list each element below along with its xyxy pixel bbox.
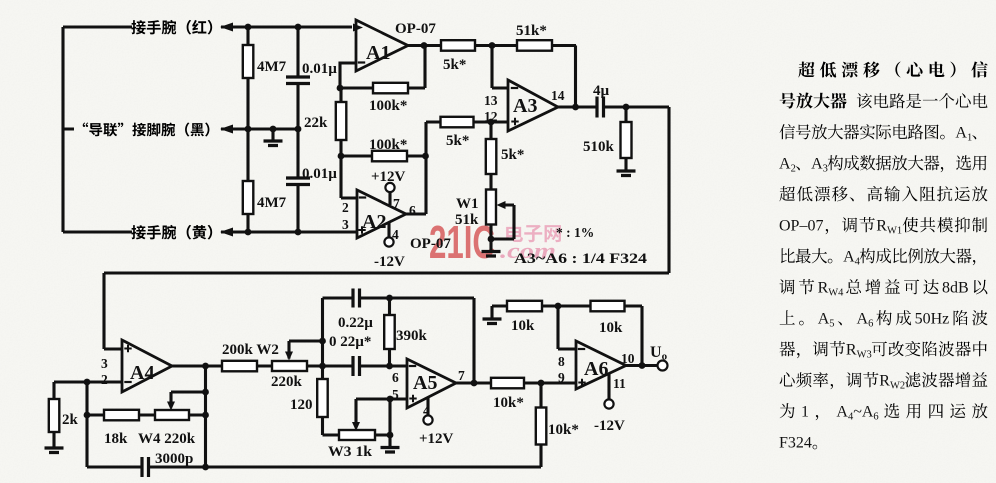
resistor 100k* R6 <box>369 137 407 161</box>
svg-text:7: 7 <box>458 368 465 383</box>
resistor 51k* R5 <box>516 23 552 51</box>
wire A5 output <box>456 381 576 384</box>
svg-text:22k: 22k <box>304 115 328 131</box>
svg-text:A3~A6 : 1/4 F324: A3~A6 : 1/4 F324 <box>514 251 648 267</box>
svg-text:4M7: 4M7 <box>257 195 287 211</box>
svg-text:3: 3 <box>101 356 108 371</box>
node notch junctions <box>386 295 393 370</box>
svg-text:2: 2 <box>101 372 108 387</box>
svg-text:A4: A4 <box>130 362 154 384</box>
label star-1pct note <box>556 225 594 240</box>
wire A6 output <box>626 364 658 367</box>
svg-text:W4 220k: W4 220k <box>138 431 196 447</box>
node A4 inv junctions <box>84 379 91 419</box>
capacitor 3000p <box>142 451 193 477</box>
svg-text:0.22µ: 0.22µ <box>338 315 373 331</box>
svg-text:2k: 2k <box>62 412 79 428</box>
ground A6 10k <box>483 306 508 324</box>
svg-text:220k: 220k <box>271 374 303 390</box>
ground W3 <box>381 435 400 452</box>
power +12V A2 <box>371 169 406 205</box>
node A6 out <box>639 362 646 369</box>
resistor 10k fb <box>591 301 625 336</box>
svg-text:-12V: -12V <box>374 254 405 270</box>
wire A6 top <box>542 306 642 366</box>
ground W1 <box>482 239 501 256</box>
svg-text:W1: W1 <box>456 196 479 212</box>
terminal Uo <box>650 344 668 371</box>
potentiometer W4 220k <box>138 392 206 447</box>
svg-text:4µ: 4µ <box>593 83 610 99</box>
pin numbers A6 <box>558 351 635 391</box>
capacitor 0.01u lower <box>286 129 337 232</box>
svg-text:OP-07: OP-07 <box>395 21 436 37</box>
ground mid-input <box>264 129 283 146</box>
node A6 fb junction <box>555 303 562 310</box>
svg-text:14: 14 <box>551 88 565 103</box>
node A5 out <box>471 380 545 387</box>
connector arrow top <box>220 23 233 32</box>
ground 510k <box>617 171 636 176</box>
wire A1 output <box>408 46 576 108</box>
label input red electrode <box>131 20 212 35</box>
svg-text:50Hz: 50Hz <box>915 311 950 328</box>
svg-text:A6: A6 <box>584 358 608 380</box>
svg-text:10: 10 <box>621 351 635 366</box>
wire A4 fb vertical <box>87 382 142 467</box>
connector arrow middle <box>220 125 233 134</box>
potentiometer W3 1k <box>328 399 390 460</box>
label OP-07 A1 <box>395 21 436 37</box>
op-amp A6 <box>576 341 626 389</box>
capacitor 0.22u* series <box>329 334 371 376</box>
svg-text:A4~A6: A4~A6 <box>836 404 878 423</box>
svg-text:OP-07: OP-07 <box>410 236 451 252</box>
ground 2k <box>45 448 64 453</box>
wire A3 pin13 <box>492 46 508 89</box>
svg-text:100k*: 100k* <box>369 98 407 114</box>
node 22k-100k junction <box>338 153 429 160</box>
svg-text:5k*: 5k* <box>501 147 524 163</box>
resistor 4M7 upper <box>243 27 287 129</box>
wire 100k*b row <box>341 156 426 198</box>
svg-text:2: 2 <box>342 200 349 215</box>
wire A4 inv input <box>54 382 122 399</box>
svg-text:100k*: 100k* <box>369 137 407 153</box>
svg-text:3000p: 3000p <box>155 451 193 467</box>
svg-text:11: 11 <box>613 376 626 391</box>
resistor 10k gnd <box>507 301 542 334</box>
pin numbers A4 <box>101 356 108 387</box>
svg-text:9: 9 <box>558 370 565 385</box>
op-amp A3 <box>508 80 558 131</box>
svg-text:OP–07: OP–07 <box>779 218 823 235</box>
svg-text:13: 13 <box>484 93 498 108</box>
svg-text:18k: 18k <box>104 431 128 447</box>
svg-text:8dB: 8dB <box>942 280 969 297</box>
potentiometer W2 220k <box>271 341 323 390</box>
resistor 4M7 lower <box>243 129 287 232</box>
svg-text:10k: 10k <box>511 318 535 334</box>
op-amp A1 <box>353 20 408 71</box>
svg-text:W3 1k: W3 1k <box>328 444 373 460</box>
node W2 junctions <box>319 338 326 370</box>
node A4 out junctions <box>202 363 209 471</box>
svg-text:-12V: -12V <box>594 418 625 434</box>
wire A5 plus input <box>356 399 407 423</box>
resistor 10k* v <box>536 383 579 467</box>
svg-text:10k*: 10k* <box>493 395 524 411</box>
node W1 bottom <box>488 236 495 243</box>
wire A1 feedback <box>340 46 425 89</box>
wire input-top-red <box>63 25 352 28</box>
label input lead black electrode <box>83 123 210 137</box>
wire A2 output <box>406 122 508 214</box>
svg-text:510k: 510k <box>583 139 615 155</box>
node A2-5k junction <box>488 119 495 126</box>
power -12V A6 <box>594 374 625 434</box>
resistor 5k* R4 <box>441 40 475 73</box>
node mid junctions <box>245 126 302 133</box>
svg-text:390k: 390k <box>396 328 428 344</box>
potentiometer W1 51k <box>455 190 514 240</box>
svg-text:10k: 10k <box>599 320 623 336</box>
wire A4 out vertical <box>204 366 207 467</box>
svg-text:6: 6 <box>409 203 416 218</box>
label input yellow electrode <box>131 225 212 240</box>
node W3 junctions <box>387 396 394 439</box>
svg-text:200k W2: 200k W2 <box>222 342 279 358</box>
resistor 100k* R2 <box>369 83 408 114</box>
text paragraph right column <box>779 61 988 451</box>
svg-text:A5: A5 <box>413 372 437 394</box>
wire input-bottom-yellow <box>63 230 357 233</box>
resistor 510k <box>583 107 632 170</box>
svg-text:5k*: 5k* <box>446 133 469 149</box>
svg-text:120: 120 <box>290 397 313 413</box>
svg-text:1: 1 <box>801 404 809 421</box>
connector arrow bottom <box>220 228 233 237</box>
svg-text:4M7: 4M7 <box>257 59 287 75</box>
node top-left junction <box>245 24 302 31</box>
pin numbers A5 <box>392 368 465 418</box>
op-amp A2 <box>357 190 406 238</box>
svg-text:+12V: +12V <box>371 169 406 185</box>
wire input-mid-black <box>221 127 298 130</box>
svg-text:A1: A1 <box>366 42 390 64</box>
pin numbers A2 <box>342 196 416 242</box>
svg-text:0 22µ*: 0 22µ* <box>329 334 371 350</box>
svg-text:51k: 51k <box>455 212 479 228</box>
op-amp A5 <box>407 359 456 408</box>
svg-text:5k*: 5k* <box>443 57 466 73</box>
resistor 5k* R8 vertical <box>486 122 525 190</box>
svg-text:7: 7 <box>393 196 400 211</box>
resistor 200k <box>222 342 279 371</box>
svg-text:* : 1%: * : 1% <box>556 225 594 240</box>
power -12V A2 <box>374 223 405 271</box>
node bottom junctions <box>245 229 302 236</box>
resistor 120 <box>290 366 339 435</box>
label A3-A6 F324 note <box>514 251 648 267</box>
pin numbers A3 <box>484 88 565 124</box>
resistor 10k* h <box>491 378 524 411</box>
svg-text:12: 12 <box>484 109 498 124</box>
watermark 21IC dianziwang <box>429 216 561 268</box>
wire input-left-bracket <box>63 27 74 232</box>
node A1 out junction <box>421 42 496 49</box>
resistor 390k <box>384 298 427 366</box>
node A3 out <box>572 104 629 111</box>
resistor 5k* R7 <box>441 117 474 149</box>
svg-text:+12V: +12V <box>419 431 454 447</box>
wire bottom rail <box>149 465 542 468</box>
svg-text:51k*: 51k* <box>516 23 547 39</box>
svg-text:F324: F324 <box>779 435 812 452</box>
op-amp A4 <box>122 340 172 392</box>
svg-text:8: 8 <box>558 354 565 369</box>
svg-text:A3: A3 <box>513 95 537 117</box>
capacitor 0.22u top <box>323 289 475 384</box>
svg-text:3: 3 <box>342 217 349 232</box>
resistor 22k R3 <box>304 88 346 156</box>
node A1 fb junction <box>337 85 344 92</box>
wire A4 output <box>172 364 407 367</box>
svg-text:0.01µ: 0.01µ <box>302 61 337 77</box>
resistor 18k <box>104 410 139 447</box>
wire A3 output <box>104 107 669 349</box>
capacitor 0.01u upper <box>286 27 337 129</box>
power +12V A5 <box>419 398 454 448</box>
capacitor 4u <box>593 83 610 118</box>
wire notch left vertical <box>321 298 324 366</box>
svg-text:6: 6 <box>392 370 399 385</box>
label OP-07 A2 <box>410 236 451 252</box>
svg-text:0.01µ: 0.01µ <box>302 166 337 182</box>
svg-text:10k*: 10k* <box>548 422 579 438</box>
resistor 2k <box>49 399 79 447</box>
